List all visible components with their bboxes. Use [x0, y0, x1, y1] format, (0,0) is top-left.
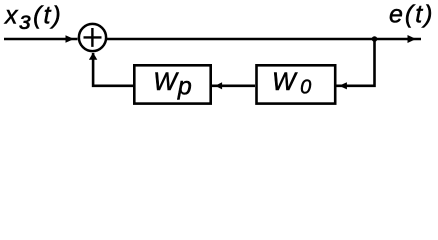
arrowhead into summer [66, 35, 75, 43]
block Wp [134, 65, 210, 103]
wire input [4, 38, 78, 41]
arrowhead into Wp [215, 82, 222, 89]
wire output [107, 38, 422, 41]
arrowhead up into summer [89, 53, 97, 60]
arrowhead into W0 [339, 82, 347, 89]
plus sign [84, 28, 102, 47]
svg-text:e(t): e(t) [389, 1, 435, 29]
wire W0 to Wp [211, 85, 255, 88]
svg-text:xз(t): xз(t) [4, 1, 63, 35]
svg-text:Wp: Wp [153, 68, 192, 101]
junction dot [372, 36, 378, 42]
block W0 [257, 65, 336, 103]
wire feedback down and left [336, 39, 375, 86]
summing junction U1 [79, 24, 106, 51]
wire Wp to summer [93, 53, 134, 86]
arrowhead output [408, 35, 417, 43]
